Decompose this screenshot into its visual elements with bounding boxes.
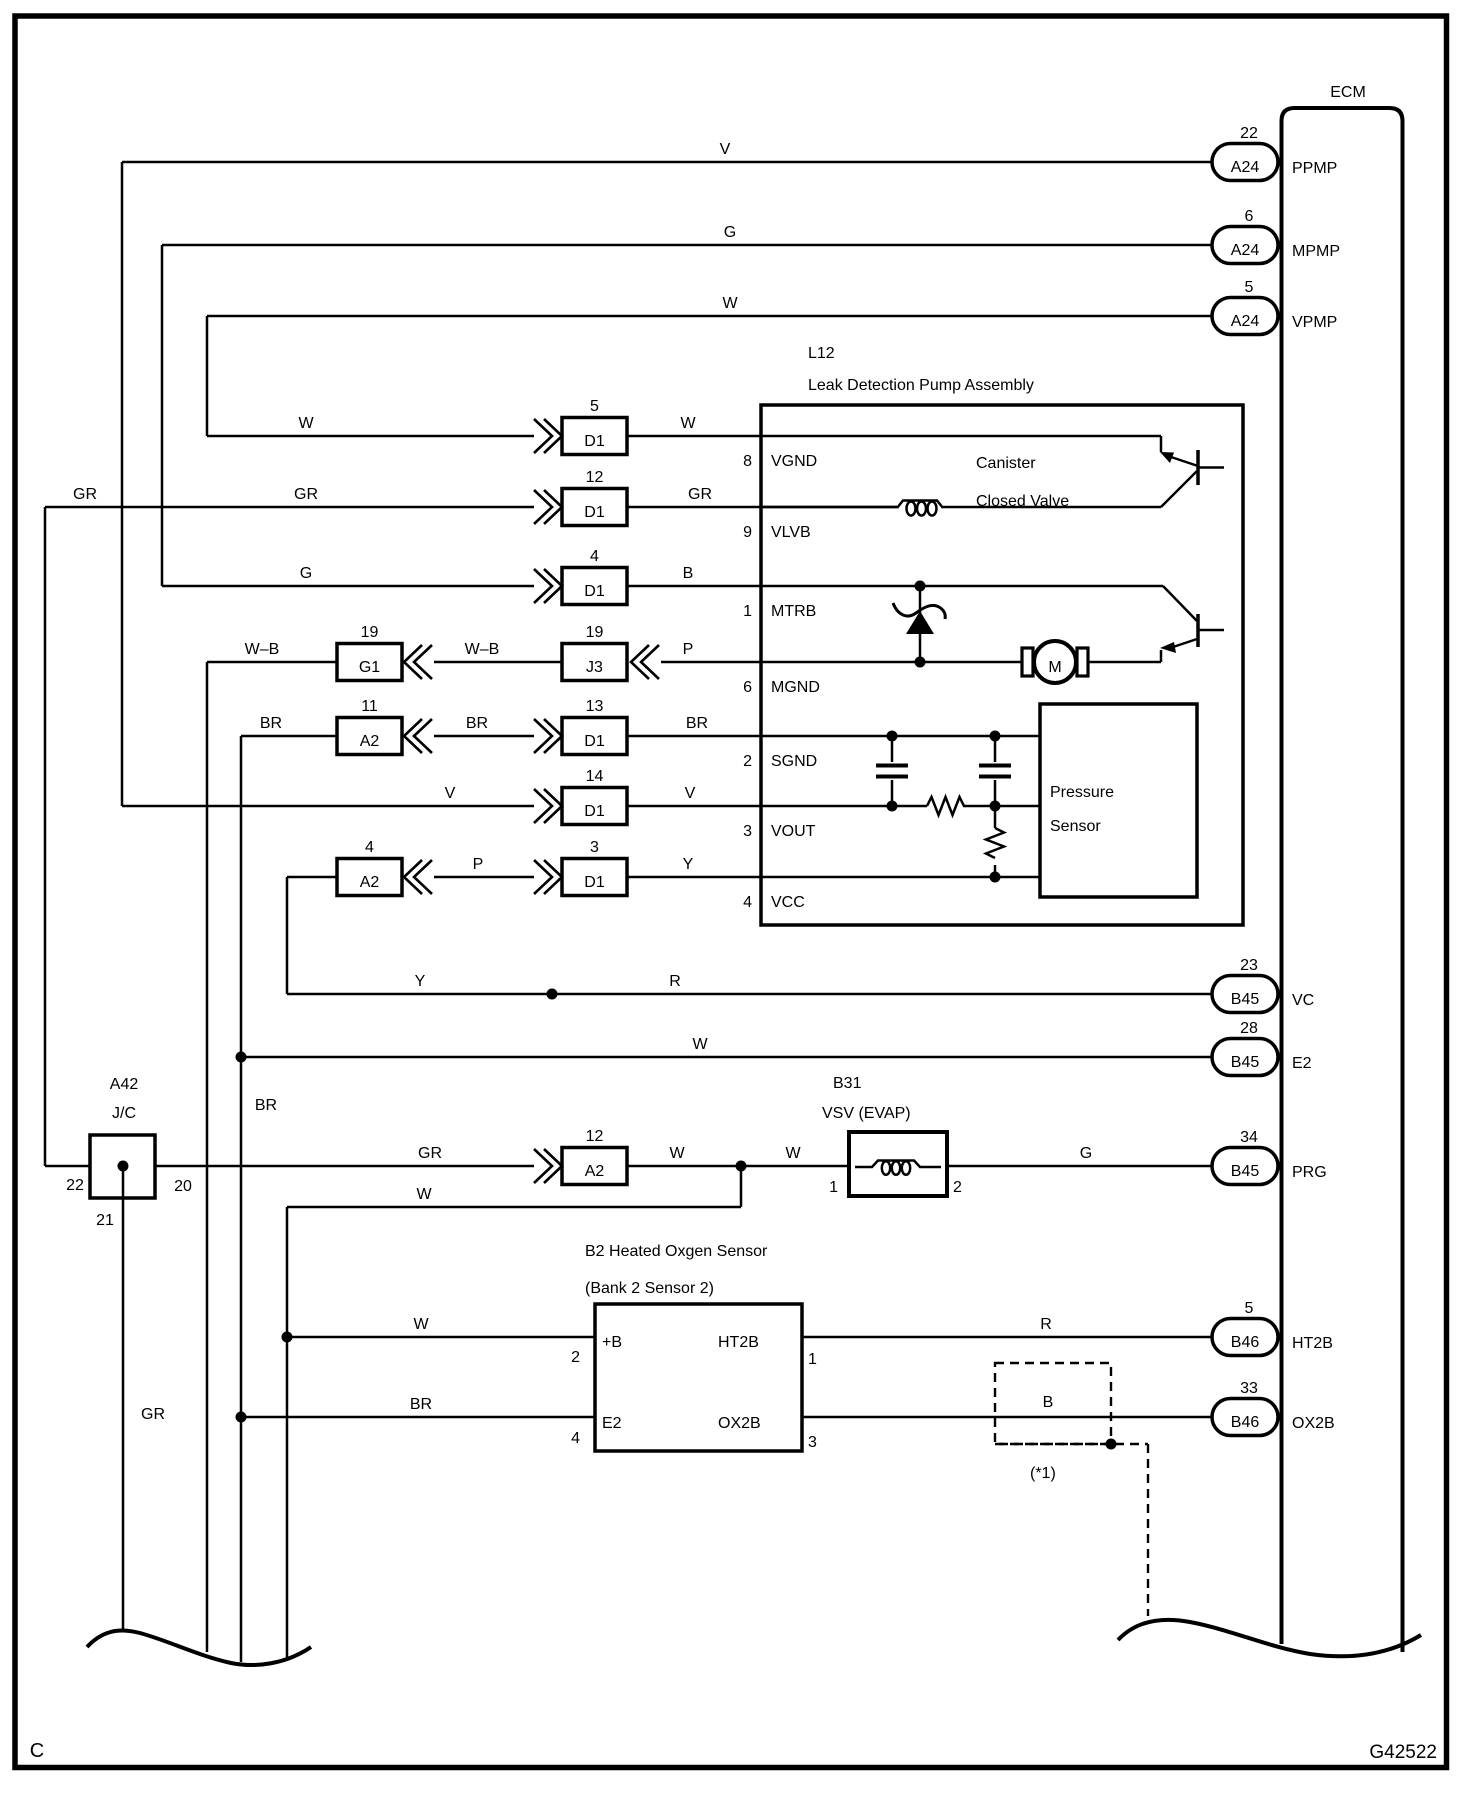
svg-text:19: 19: [361, 624, 379, 641]
wire V to pump pin 3: [627, 805, 761, 808]
svg-text:GR: GR: [73, 486, 97, 503]
svg-text:W: W: [413, 1316, 429, 1333]
wire W (VPMP) horizontal: [207, 315, 1212, 318]
pump wire VGND: [761, 435, 1161, 438]
svg-text:V: V: [720, 141, 731, 158]
svg-text:A24: A24: [1231, 159, 1260, 176]
svg-text:D1: D1: [584, 874, 605, 891]
svg-text:A24: A24: [1231, 242, 1260, 259]
svg-text:W: W: [680, 415, 696, 432]
resistor R2 vertical: [994, 806, 997, 828]
pressure sensor box: [1040, 704, 1197, 897]
pump wire motor to transistor: [1088, 661, 1161, 664]
transistor Q1 canister closed valve: [1160, 436, 1163, 452]
chevron arrows into D1(14): [544, 789, 562, 823]
svg-text:3: 3: [590, 839, 599, 856]
svg-text:19: 19: [586, 624, 604, 641]
pump wire VLVB coil to transistor: [943, 506, 1161, 509]
svg-text:5: 5: [1245, 1300, 1254, 1317]
svg-text:VPMP: VPMP: [1292, 314, 1337, 331]
capacitor C1: [891, 736, 894, 762]
svg-text:22: 22: [66, 1177, 84, 1194]
svg-text:B46: B46: [1231, 1414, 1260, 1431]
wire V (PPMP) horizontal: [122, 161, 1212, 164]
wire to A2(4): [287, 876, 337, 879]
connector A24 pin 6 MPMP: [1212, 227, 1278, 264]
heated oxygen sensor box: [595, 1304, 802, 1451]
junction dot inside J/C: [118, 1161, 129, 1172]
svg-text:4: 4: [571, 1430, 580, 1447]
svg-text:V: V: [445, 785, 456, 802]
wavy break line right: [1118, 1620, 1421, 1656]
wire W to sensor +B: [287, 1336, 595, 1339]
connector B46 pin 5 HT2B: [1212, 1319, 1278, 1356]
svg-text:1: 1: [829, 1179, 838, 1196]
wire G row 3: [162, 585, 534, 588]
svg-text:20: 20: [174, 1178, 192, 1195]
svg-text:5: 5: [590, 398, 599, 415]
svg-text:13: 13: [586, 698, 604, 715]
connector D1 pin 14: [562, 788, 627, 825]
wire G from VSV pin 2 to PRG: [947, 1165, 1212, 1168]
svg-text:C: C: [30, 1740, 44, 1762]
svg-text:W: W: [722, 295, 738, 312]
svg-text:BR: BR: [260, 715, 282, 732]
wire GR vertical far left: [44, 507, 47, 1166]
svg-text:3: 3: [743, 823, 752, 840]
svg-text:(*1): (*1): [1030, 1465, 1056, 1482]
svg-text:W: W: [416, 1186, 432, 1203]
svg-text:28: 28: [1240, 1020, 1258, 1037]
svg-text:6: 6: [1245, 208, 1254, 225]
chevron arrows out of A2(11): [404, 719, 422, 753]
ECM block: [1282, 108, 1403, 1652]
svg-text:GR: GR: [688, 486, 712, 503]
svg-text:4: 4: [590, 548, 599, 565]
svg-text:V: V: [685, 785, 696, 802]
wire R HT2B: [802, 1336, 1212, 1339]
svg-text:B45: B45: [1231, 1054, 1260, 1071]
svg-text:A24: A24: [1231, 313, 1260, 330]
wire GR row 2: [45, 506, 534, 509]
connector A2 pin 11: [337, 718, 402, 755]
svg-text:VC: VC: [1292, 992, 1314, 1009]
wire W-B between G1 and J3: [434, 661, 562, 664]
svg-text:P: P: [473, 856, 484, 873]
svg-text:11: 11: [361, 698, 378, 715]
svg-text:GR: GR: [141, 1406, 165, 1423]
svg-text:+B: +B: [602, 1334, 622, 1351]
svg-text:R: R: [1040, 1316, 1052, 1333]
wire GR from J/C pin 20: [155, 1165, 534, 1168]
leak detection pump assembly box: [761, 405, 1243, 925]
svg-text:BR: BR: [255, 1097, 277, 1114]
connector B45 pin 34 PRG: [1212, 1148, 1278, 1185]
svg-text:2: 2: [743, 753, 752, 770]
svg-text:Leak Detection Pump Assembly: Leak Detection Pump Assembly: [808, 377, 1034, 394]
motor M: [1034, 641, 1076, 683]
pump wire MTRB: [761, 585, 1163, 588]
wire W-B row 4: [207, 661, 337, 664]
junction block A42 J/C: [90, 1135, 155, 1198]
svg-text:J3: J3: [586, 659, 603, 676]
svg-text:SGND: SGND: [771, 753, 817, 770]
svg-text:1: 1: [808, 1351, 817, 1368]
svg-text:G: G: [300, 565, 312, 582]
wire W vertical: [206, 316, 209, 436]
svg-text:B45: B45: [1231, 991, 1260, 1008]
svg-text:VSV (EVAP): VSV (EVAP): [822, 1105, 911, 1122]
svg-text:Y: Y: [415, 973, 426, 990]
wire V vertical: [121, 162, 124, 806]
svg-text:Y: Y: [683, 856, 694, 873]
svg-text:E2: E2: [602, 1415, 622, 1432]
svg-text:VOUT: VOUT: [771, 823, 816, 840]
svg-text:4: 4: [743, 894, 752, 911]
svg-text:D1: D1: [584, 504, 605, 521]
wire P to pump pin 6: [661, 661, 761, 664]
wire W to connector D1 row 1: [207, 435, 534, 438]
svg-text:HT2B: HT2B: [718, 1334, 759, 1351]
svg-text:3: 3: [808, 1434, 817, 1451]
svg-text:22: 22: [1240, 125, 1258, 142]
svg-text:M: M: [1048, 659, 1061, 676]
chevron arrows into D1(4): [544, 569, 562, 603]
svg-text:BR: BR: [410, 1396, 432, 1413]
wire W branch horizontal: [287, 1206, 741, 1209]
wire W to pump pin 8: [627, 435, 761, 438]
connector A24 pin 5 VPMP: [1212, 298, 1278, 335]
svg-text:B46: B46: [1231, 1334, 1260, 1351]
wire BR between A2 and D1: [434, 735, 534, 738]
connector D1 pin 12: [562, 489, 627, 526]
wire BR to pump pin 2: [627, 735, 761, 738]
svg-text:OX2B: OX2B: [1292, 1415, 1335, 1432]
wire GR to coil: [627, 506, 897, 509]
svg-text:34: 34: [1240, 1129, 1258, 1146]
junction dot shield: [1106, 1439, 1117, 1450]
svg-text:G1: G1: [359, 659, 380, 676]
wire GR into J/C pin 22: [45, 1165, 90, 1168]
svg-text:MPMP: MPMP: [1292, 243, 1340, 260]
pump wire VOUT left: [761, 805, 927, 808]
svg-text:14: 14: [586, 768, 604, 785]
wire BR row 5: [241, 735, 337, 738]
svg-text:W: W: [669, 1145, 685, 1162]
svg-text:P: P: [683, 641, 694, 658]
svg-text:W: W: [298, 415, 314, 432]
svg-text:PPMP: PPMP: [1292, 160, 1337, 177]
svg-text:J/C: J/C: [112, 1105, 136, 1122]
connector A2 pin 12: [562, 1148, 627, 1185]
wire W vertical to sensor and down: [286, 1207, 289, 1661]
svg-text:W: W: [785, 1145, 801, 1162]
wire G (MPMP) horizontal: [162, 244, 1212, 247]
svg-text:A2: A2: [360, 874, 380, 891]
svg-text:W–B: W–B: [245, 641, 280, 658]
wire W to VSV pin 1: [627, 1165, 849, 1168]
svg-text:2: 2: [953, 1179, 962, 1196]
connector B45 pin 28 E2: [1212, 1039, 1278, 1076]
connector D1 pin 5: [562, 418, 627, 455]
svg-text:B2 Heated Oxgen Sensor: B2 Heated Oxgen Sensor: [585, 1243, 768, 1260]
svg-text:BR: BR: [466, 715, 488, 732]
chevron arrows into A2(12): [544, 1149, 562, 1183]
svg-text:G: G: [724, 224, 736, 241]
junction dot PRG row: [736, 1161, 747, 1172]
junction connector J3 pin 19: [562, 644, 627, 681]
wire W branch vertical: [740, 1166, 743, 1207]
zener diode: [919, 586, 922, 662]
shield dashed bottom extension: [995, 1443, 1148, 1445]
chevron arrows into D1(12): [544, 490, 562, 524]
junction dot VCC: [990, 872, 1001, 883]
connector D1 pin 4: [562, 568, 627, 605]
svg-text:Sensor: Sensor: [1050, 818, 1101, 835]
chevron arrows out of A2(4): [404, 860, 422, 894]
solenoid valve VSV box: [849, 1132, 947, 1196]
svg-text:23: 23: [1240, 957, 1258, 974]
svg-text:1: 1: [743, 603, 752, 620]
connector B46 pin 33 OX2B: [1212, 1399, 1278, 1436]
wire G vertical: [161, 245, 164, 586]
svg-text:VCC: VCC: [771, 894, 805, 911]
connector A24 pin 22 PPMP: [1212, 144, 1278, 181]
svg-text:A2: A2: [585, 1163, 605, 1180]
svg-text:G: G: [1080, 1145, 1092, 1162]
connector G1 pin 19: [337, 644, 402, 681]
svg-text:R: R: [669, 973, 681, 990]
svg-text:B31: B31: [833, 1075, 862, 1092]
wire Y to pump pin 4: [627, 876, 761, 879]
wire B OX2B: [802, 1416, 1212, 1419]
svg-text:G42522: G42522: [1369, 1742, 1437, 1763]
wire BR to sensor E2: [241, 1416, 595, 1419]
chevron arrows into D1(3): [544, 860, 562, 894]
svg-text:D1: D1: [584, 583, 605, 600]
splice dot VC row: [547, 989, 558, 1000]
connector B45 pin 23 VC: [1212, 976, 1278, 1013]
svg-text:L12: L12: [808, 345, 835, 362]
chevron arrows out of J3: [631, 645, 649, 679]
connector A2 pin 4: [337, 859, 402, 896]
capacitor C2: [994, 736, 997, 762]
wire Y vertical short: [286, 877, 289, 994]
connector D1 pin 13: [562, 718, 627, 755]
connector D1 pin 3: [562, 859, 627, 896]
pump wire SGND: [761, 735, 1040, 738]
svg-text:GR: GR: [418, 1145, 442, 1162]
pump wire VOUT right: [963, 805, 1040, 808]
svg-text:VGND: VGND: [771, 453, 817, 470]
pump wire MGND to motor: [761, 661, 1022, 664]
shield dashed box: [995, 1363, 1111, 1444]
svg-text:9: 9: [743, 524, 752, 541]
svg-text:8: 8: [743, 453, 752, 470]
wire P row 7: [434, 876, 534, 879]
svg-text:E2: E2: [1292, 1055, 1312, 1072]
svg-text:5: 5: [1245, 279, 1254, 296]
wire GR from J/C pin 21 down: [122, 1166, 125, 1631]
wire W to E2: [241, 1056, 1212, 1059]
chevron arrows into D1(5): [544, 419, 562, 453]
chevron arrows out of G1: [404, 645, 422, 679]
svg-text:OX2B: OX2B: [718, 1415, 761, 1432]
svg-text:W: W: [692, 1036, 708, 1053]
svg-text:33: 33: [1240, 1380, 1258, 1397]
chevron arrows into D1(13): [544, 719, 562, 753]
svg-text:A42: A42: [110, 1076, 139, 1093]
svg-text:B: B: [1043, 1394, 1054, 1411]
pump wire VLVB to coil: [761, 506, 897, 509]
junction dot BR E2 sensor: [236, 1412, 247, 1423]
svg-text:W–B: W–B: [465, 641, 500, 658]
wire BR vertical: [240, 736, 243, 1662]
pump wire VCC: [761, 876, 1040, 879]
coil inside VSV: [855, 1161, 941, 1168]
junction dot zener bottom: [915, 657, 926, 668]
resistor R1 horizontal: [927, 797, 964, 815]
svg-text:Canister: Canister: [976, 455, 1036, 472]
svg-text:Closed Valve: Closed Valve: [976, 493, 1069, 510]
svg-text:21: 21: [96, 1212, 114, 1229]
svg-text:B45: B45: [1231, 1163, 1260, 1180]
svg-text:D1: D1: [584, 733, 605, 750]
svg-text:D1: D1: [584, 433, 605, 450]
svg-text:Pressure: Pressure: [1050, 784, 1114, 801]
wavy break line left: [87, 1631, 311, 1665]
wire V row 6: [122, 805, 534, 808]
svg-text:MTRB: MTRB: [771, 603, 816, 620]
svg-text:VLVB: VLVB: [771, 524, 811, 541]
svg-text:HT2B: HT2B: [1292, 1335, 1333, 1352]
svg-text:B: B: [683, 565, 694, 582]
svg-text:BR: BR: [686, 715, 708, 732]
junction dot zener top: [915, 581, 926, 592]
svg-text:ECM: ECM: [1330, 84, 1366, 101]
coil canister closed valve: [897, 501, 943, 509]
junction dot W +B: [282, 1332, 293, 1343]
wire W-B vertical: [206, 662, 209, 1652]
shield dashed vertical: [1147, 1444, 1149, 1616]
wire B to pump pin 1: [627, 585, 761, 588]
junction dot BR/E2: [236, 1052, 247, 1063]
svg-text:(Bank 2 Sensor 2): (Bank 2 Sensor 2): [585, 1280, 714, 1297]
svg-text:D1: D1: [584, 803, 605, 820]
transistor Q2 motor driver: [1163, 586, 1197, 621]
svg-text:6: 6: [743, 679, 752, 696]
wire Y/R to VC: [287, 993, 1212, 996]
svg-text:12: 12: [586, 469, 604, 486]
svg-text:GR: GR: [294, 486, 318, 503]
svg-text:12: 12: [586, 1128, 604, 1145]
svg-text:4: 4: [365, 839, 374, 856]
svg-text:PRG: PRG: [1292, 1164, 1327, 1181]
svg-text:A2: A2: [360, 733, 380, 750]
svg-text:2: 2: [571, 1349, 580, 1366]
svg-text:MGND: MGND: [771, 679, 820, 696]
